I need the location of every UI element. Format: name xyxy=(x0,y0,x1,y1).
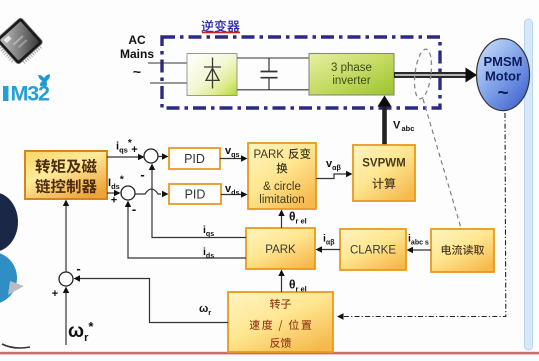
current reading block 电流读取 xyxy=(431,229,494,272)
wire PID1 to PARKinv xyxy=(220,158,241,160)
svg-text:~: ~ xyxy=(133,64,141,80)
PID block 2 xyxy=(169,184,221,204)
torque block text line1 转矩及磁 xyxy=(35,159,96,174)
wire motor position dashdot xyxy=(343,113,506,317)
wire omega r feedback xyxy=(79,279,228,323)
svg-text:PID: PID xyxy=(184,152,205,166)
dc link capacitor C1 xyxy=(261,58,278,90)
wire S2 to PID2 with hop xyxy=(135,189,161,194)
wire CLARKE to PARK xyxy=(322,249,340,251)
park inv text 换 xyxy=(277,163,288,174)
wire dc bus bottom xyxy=(237,89,309,91)
svg-text:-: - xyxy=(140,167,144,182)
bottom-left dark curve xyxy=(2,344,30,348)
wire ids feedback xyxy=(128,206,246,258)
inverter block text xyxy=(331,62,372,87)
svg-text:~: ~ xyxy=(497,83,508,104)
svg-text:inverter: inverter xyxy=(332,75,371,87)
wire S1 to PID1 xyxy=(158,156,162,158)
svg-text:AC: AC xyxy=(128,33,146,47)
wire PID2 to PARKinv xyxy=(221,194,241,196)
svg-text:abc: abc xyxy=(402,124,415,133)
rotor text 反馈 xyxy=(270,338,291,348)
left background blob blue xyxy=(0,252,17,304)
left background blob dark xyxy=(0,192,18,252)
motor shaft arrow xyxy=(394,68,477,83)
signal labels xyxy=(68,138,429,344)
svg-text:V: V xyxy=(393,120,401,132)
svg-text:-: - xyxy=(76,261,80,276)
SVPWM block xyxy=(353,145,415,201)
wire S3 to torque block xyxy=(65,205,67,272)
wire current to CLARKE xyxy=(413,249,432,251)
STM32 chip image xyxy=(0,17,46,70)
svg-text:+: + xyxy=(52,288,58,300)
svg-text:& circle: & circle xyxy=(263,181,301,193)
wire iqs feedback xyxy=(152,169,246,238)
PARK inverse transform block xyxy=(248,143,316,209)
svg-text:PARK: PARK xyxy=(254,149,285,161)
wire dc bus top xyxy=(237,57,309,59)
rotor text 速度/位置 xyxy=(250,320,312,331)
wire sensor diagonal dashed xyxy=(423,99,461,228)
rotor text 转子 xyxy=(270,299,291,309)
svg-text:3 phase: 3 phase xyxy=(331,62,372,74)
svpwm text 计算 xyxy=(373,178,396,189)
rectifier block xyxy=(187,54,237,96)
park inv text circle limitation xyxy=(259,181,304,206)
wire theta rel lower xyxy=(281,275,283,292)
red underline xyxy=(202,32,240,34)
current reading text 电流读取 xyxy=(442,245,484,255)
CLARKE block xyxy=(340,229,406,270)
park inv text 反变 xyxy=(289,148,311,159)
inverter label 逆变器 xyxy=(202,20,240,32)
torque block text line2 链控制器 xyxy=(35,179,97,194)
wire ac line1 xyxy=(148,62,187,64)
summing junction S2 xyxy=(121,186,135,200)
torque flux controller block xyxy=(25,151,107,199)
butterfly logo xyxy=(38,74,50,86)
right edge stripe xyxy=(525,19,533,350)
svg-text:Mains: Mains xyxy=(120,47,154,61)
label Vabc xyxy=(393,120,414,134)
inverter boundary box xyxy=(162,37,440,108)
wire iqs* ref xyxy=(107,156,143,158)
PID block 1 xyxy=(169,148,220,169)
summing junction S1 xyxy=(144,149,158,163)
wire theta rel upper xyxy=(281,215,283,228)
wire omega r star input xyxy=(65,292,67,345)
svg-text:Motor: Motor xyxy=(485,69,521,84)
PMSM motor text xyxy=(484,54,523,104)
wire PARKinv to SVPWM xyxy=(316,174,346,179)
svg-text:PARK: PARK xyxy=(265,244,296,256)
svg-text:CLARKE: CLARKE xyxy=(350,245,396,257)
wire ac line2 xyxy=(150,82,187,84)
svg-text:SVPWM: SVPWM xyxy=(362,158,405,170)
svg-text:limitation: limitation xyxy=(259,194,304,206)
current sensor loop xyxy=(412,48,434,100)
red divider line xyxy=(0,352,539,355)
svg-text:PID: PID xyxy=(185,188,206,202)
plus minus signs xyxy=(52,144,145,300)
rotor speed position feedback block xyxy=(228,292,333,352)
wire ids* ref xyxy=(107,192,114,194)
PMSM motor xyxy=(477,39,530,111)
svg-text:+: + xyxy=(131,144,137,156)
PARK block xyxy=(246,228,315,269)
summing junction S3 xyxy=(59,272,73,286)
left blob gray wing xyxy=(8,281,24,295)
wire Vabc thick arrow xyxy=(378,96,392,147)
svg-text:-: - xyxy=(132,202,136,217)
rectifier diode D1 xyxy=(204,58,221,89)
three phase inverter block xyxy=(309,54,394,96)
svg-text:+: + xyxy=(111,195,117,207)
STM32 logo text xyxy=(3,86,9,101)
svg-text:PMSM: PMSM xyxy=(484,54,523,69)
AC Mains label xyxy=(120,33,154,80)
